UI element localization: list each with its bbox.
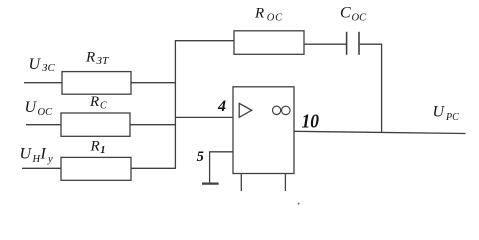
label R_C value xyxy=(89,94,107,111)
label R_ZT value xyxy=(85,50,109,67)
svg-text:1: 1 xyxy=(100,145,105,156)
capacitor C_OC xyxy=(347,32,359,55)
wire feedback top xyxy=(175,40,235,42)
wire U_OC input xyxy=(26,124,62,126)
node U_PC output label xyxy=(433,103,460,122)
svg-text:ЗТ: ЗТ xyxy=(97,55,110,67)
svg-text:R: R xyxy=(254,6,264,22)
node U_H I_y input label xyxy=(20,145,54,164)
svg-text:R: R xyxy=(85,50,95,66)
svg-text:РС: РС xyxy=(445,112,459,123)
wire bus to pin 4 xyxy=(175,116,233,118)
node U_OC input label xyxy=(25,99,54,118)
svg-text:10: 10 xyxy=(302,110,320,132)
svg-text:ОС: ОС xyxy=(352,13,368,24)
resistor R_OC xyxy=(234,31,304,55)
svg-text:U: U xyxy=(20,145,33,162)
node U_ZS input label xyxy=(29,56,56,74)
wire U_H input xyxy=(22,167,62,169)
wire summing bus vertical xyxy=(174,41,176,169)
svg-text:4: 4 xyxy=(217,98,226,115)
pin leg left bottom xyxy=(240,174,242,192)
op-amp infinity gain symbol xyxy=(273,106,291,115)
resistor R_ZT xyxy=(62,72,131,95)
svg-text:R: R xyxy=(90,138,100,154)
svg-text:ЗС: ЗС xyxy=(42,62,55,74)
svg-text:5: 5 xyxy=(197,149,204,165)
wire R_OC to C_OC xyxy=(304,43,347,45)
svg-text:R: R xyxy=(89,94,99,110)
svg-text:ОС: ОС xyxy=(38,107,54,118)
stray dot mark xyxy=(298,203,300,205)
wire feedback right vertical xyxy=(381,44,383,133)
wire R_ZT to bus xyxy=(131,82,176,84)
svg-text:C: C xyxy=(340,4,351,21)
resistor R_C xyxy=(61,113,130,136)
svg-text:I: I xyxy=(40,145,47,162)
pin leg right bottom xyxy=(284,174,286,192)
resistor R_1 xyxy=(61,157,131,180)
wire R_1 to bus xyxy=(131,167,175,169)
op-amp amplifier triangle xyxy=(239,103,252,117)
label R_1 value xyxy=(90,138,106,156)
svg-text:у: у xyxy=(47,154,53,165)
svg-text:ОС: ОС xyxy=(267,13,283,24)
svg-text:U: U xyxy=(29,56,42,73)
label C_OC value xyxy=(340,4,367,23)
label R_OC value xyxy=(254,6,283,24)
wire pin 5 horizontal xyxy=(210,151,233,153)
op-amp U1 body xyxy=(233,87,294,174)
svg-text:С: С xyxy=(100,100,107,111)
wire R_C to bus xyxy=(130,124,176,126)
svg-text:U: U xyxy=(433,103,446,120)
wire output pin 10 xyxy=(294,131,466,133)
wire U_ZS input xyxy=(24,82,63,84)
ground xyxy=(202,183,219,185)
svg-text:U: U xyxy=(25,99,38,116)
wire C_OC to feedback right xyxy=(360,43,382,45)
wire pin 5 down to ground xyxy=(209,151,211,183)
